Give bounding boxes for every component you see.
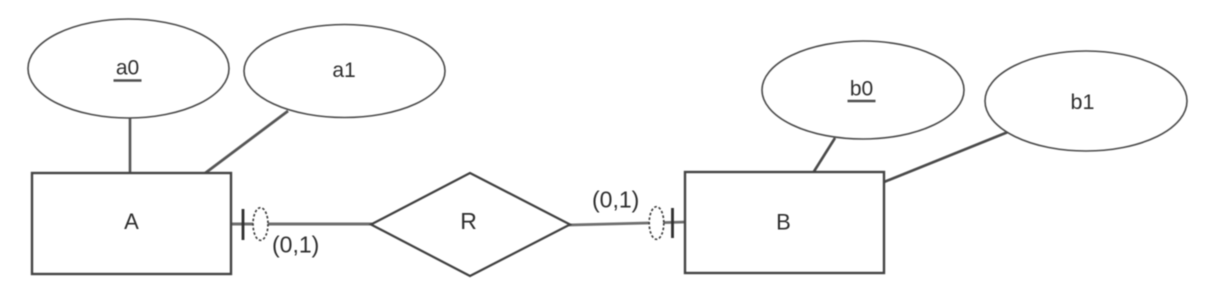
attribute a0 (key) [28,19,229,118]
svg-text:R: R [460,208,477,234]
svg-text:a1: a1 [332,59,355,82]
oval symbol near A [253,208,268,241]
svg-text:(0,1): (0,1) [272,232,319,258]
relationship R [371,173,570,276]
tick near A [242,209,245,240]
attribute b1 [985,51,1187,151]
svg-text:B: B [776,210,791,235]
svg-text:a0: a0 [116,57,139,80]
wire R to B [569,222,686,225]
tick near B [671,208,674,238]
wire a1 to A [204,111,288,174]
svg-text:b0: b0 [850,78,873,101]
wire b1 to B [884,132,1008,182]
wire A to R [231,223,372,226]
entity B [685,172,884,273]
wire a0 to A [129,115,132,174]
oval symbol near B [649,207,664,240]
attribute b0 (key) [762,41,964,139]
svg-text:(0,1): (0,1) [592,187,639,213]
svg-text:b1: b1 [1071,90,1095,114]
wire b0 to B [813,138,835,173]
svg-text:A: A [124,209,139,234]
entity A [32,173,231,274]
attribute a1 [244,25,445,118]
